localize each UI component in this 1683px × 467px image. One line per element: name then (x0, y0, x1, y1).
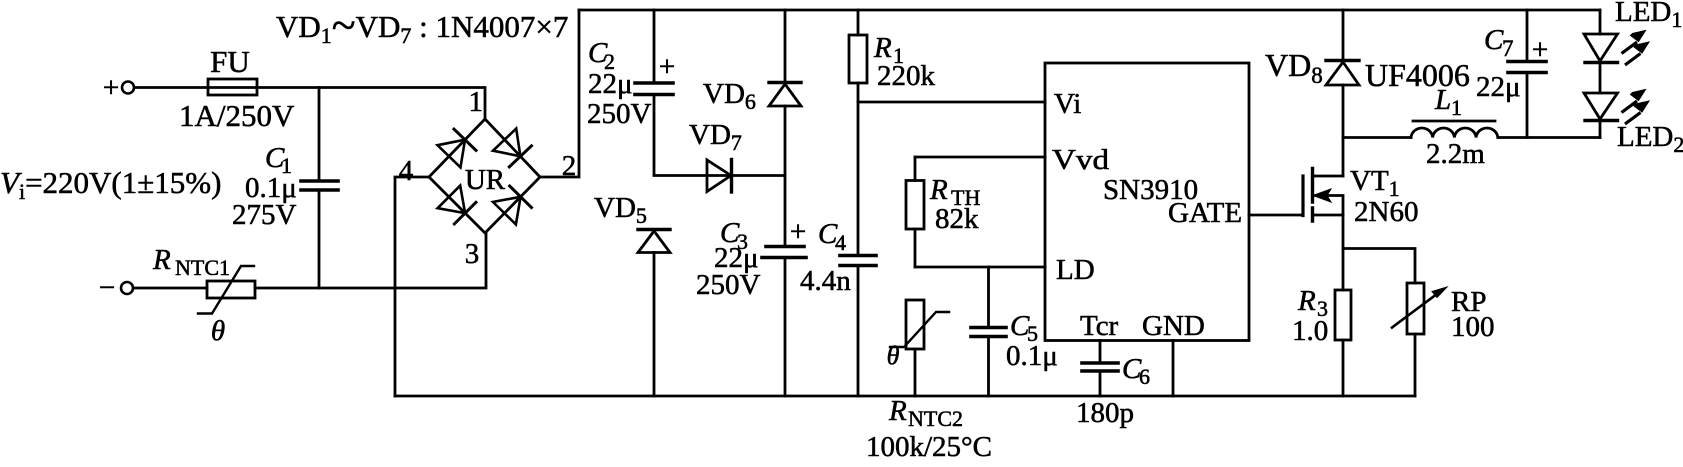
svg-text:Vvd: Vvd (1052, 144, 1110, 176)
svg-text:FU: FU (210, 44, 250, 79)
svg-text:θ: θ (887, 341, 900, 370)
svg-text:R: R (929, 174, 948, 206)
svg-text:22μ: 22μ (588, 68, 633, 100)
svg-text:GND: GND (1142, 310, 1205, 342)
svg-text:1: 1 (469, 86, 484, 118)
svg-text:+: + (103, 72, 119, 104)
svg-text:4: 4 (835, 230, 846, 255)
svg-text:R: R (152, 244, 171, 276)
svg-text:220k: 220k (877, 60, 936, 92)
svg-text:4.4n: 4.4n (800, 265, 851, 297)
svg-text:2.2m: 2.2m (1426, 138, 1485, 170)
svg-text:−: − (99, 272, 115, 304)
svg-text:GATE: GATE (1168, 197, 1242, 229)
svg-text:VD6: VD6 (703, 78, 756, 114)
svg-text:0.1μ: 0.1μ (1006, 340, 1058, 372)
svg-text:1A/250V: 1A/250V (179, 98, 295, 133)
svg-text:NTC2: NTC2 (908, 406, 963, 431)
svg-text:1.0: 1.0 (1292, 315, 1328, 347)
svg-text:R: R (1297, 285, 1316, 317)
svg-text:Vi: Vi (1054, 88, 1081, 120)
svg-text:100: 100 (1451, 311, 1495, 343)
svg-text:L: L (1434, 84, 1451, 116)
svg-text:250V: 250V (587, 98, 652, 130)
svg-text:VD1~VD7 : 1N4007×7: VD1~VD7 : 1N4007×7 (276, 1, 568, 50)
svg-text:+: + (659, 51, 675, 83)
svg-text:UF4006: UF4006 (1365, 57, 1470, 93)
svg-text:VD8: VD8 (1265, 47, 1323, 88)
svg-text:θ: θ (211, 315, 225, 347)
svg-text:VD5: VD5 (594, 192, 647, 228)
svg-text:1: 1 (1451, 95, 1462, 120)
svg-text:R: R (888, 395, 907, 427)
svg-text:LED1: LED1 (1615, 0, 1682, 32)
svg-text:275V: 275V (232, 199, 297, 231)
svg-text:100k/25°C: 100k/25°C (866, 431, 992, 463)
svg-text:4: 4 (399, 155, 414, 187)
svg-text:Tcr: Tcr (1080, 310, 1119, 342)
svg-text:2N60: 2N60 (1354, 196, 1418, 228)
svg-text:NTC1: NTC1 (175, 255, 230, 280)
svg-text:3: 3 (465, 238, 480, 270)
svg-text:82k: 82k (935, 203, 979, 235)
svg-text:Vi=220V(1±15%): Vi=220V(1±15%) (0, 165, 221, 204)
svg-text:2: 2 (562, 150, 577, 182)
svg-text:LED2: LED2 (1617, 121, 1683, 157)
svg-text:UR: UR (465, 164, 506, 196)
svg-text:6: 6 (1139, 364, 1150, 389)
svg-text:C: C (1484, 24, 1504, 56)
svg-text:7: 7 (1502, 36, 1514, 61)
svg-text:22μ: 22μ (1476, 71, 1521, 103)
svg-text:+: + (790, 216, 806, 248)
svg-text:180p: 180p (1076, 397, 1134, 429)
svg-text:+: + (1532, 34, 1548, 66)
svg-text:250V: 250V (696, 269, 761, 301)
svg-text:VD7: VD7 (689, 119, 742, 155)
svg-text:LD: LD (1056, 254, 1095, 286)
